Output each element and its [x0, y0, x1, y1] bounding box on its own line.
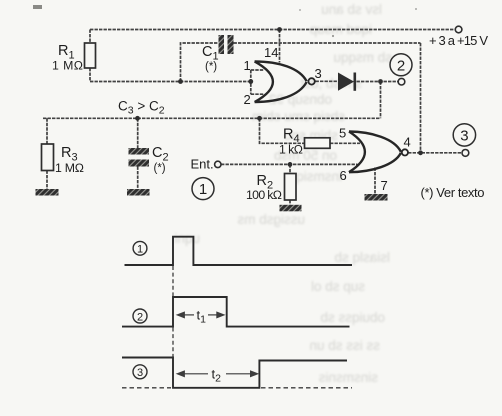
svg-text:3: 3 — [315, 66, 322, 81]
node 1 circled label — [192, 178, 214, 200]
svg-text:2: 2 — [397, 57, 405, 74]
junction: gate U1a input tie dot — [248, 79, 253, 84]
wire: R1 top lead — [89, 30, 91, 44]
ground (C2) — [127, 189, 150, 196]
node 2 circled label (timing) — [133, 309, 147, 323]
junction: R4 branch dot — [257, 116, 262, 121]
svg-text:ss iss sb un: ss iss sb un — [309, 338, 380, 353]
dashed low reference line — [122, 387, 352, 389]
wire: R1 bottom lead to input bus — [89, 68, 91, 82]
svg-text:1: 1 — [199, 181, 207, 198]
ground (R3) — [36, 189, 59, 196]
wire: gate U1a input tie bar — [250, 70, 252, 94]
junction: C2 bus dot — [135, 116, 140, 121]
terminal 2 open circle — [398, 78, 405, 85]
wire: diode cathode to terminal 2 — [357, 81, 399, 83]
wire: R3 top lead — [46, 118, 48, 144]
svg-text:3: 3 — [460, 127, 468, 144]
resistor R3 — [42, 144, 85, 175]
svg-text:lsiaslq sb: lsiaslq sb — [334, 250, 390, 265]
svg-text:1: 1 — [244, 58, 251, 73]
svg-text:+ 3 a +15 V: + 3 a +15 V — [429, 33, 488, 48]
wire: C2 bottom lead to ground — [137, 167, 139, 190]
wire: vertical from C1 lead down to gate U1b output node — [420, 43, 422, 153]
capacitor C1 — [202, 35, 234, 73]
capacitor C2 — [129, 145, 169, 175]
svg-text:14: 14 — [264, 45, 278, 60]
svg-text:sbsiq smu sbim: sbsiq smu sbim — [252, 109, 345, 124]
t2 dimension arrows — [177, 371, 257, 376]
svg-text:3: 3 — [137, 367, 143, 379]
wire: R4 to gate U1b pin 5 — [330, 142, 360, 144]
wire: bus from R1 to gate U1a inputs — [90, 81, 251, 83]
svg-text:obuiqss sb: obuiqss sb — [320, 310, 385, 325]
wire: Ent. input to gate U1b pin 6 — [221, 163, 358, 165]
diode D1 — [338, 73, 355, 91]
ground (pin 7) — [365, 194, 388, 201]
svg-text:(*): (*) — [205, 61, 217, 73]
svg-text:sup sb ol: sup sb ol — [311, 279, 365, 294]
svg-text:lsv sb anu: lsv sb anu — [321, 2, 382, 17]
svg-text:sb msqqu: sb msqqu — [333, 50, 392, 65]
svg-text:uqni: uqni — [174, 231, 200, 246]
svg-text:4: 4 — [404, 135, 411, 150]
junction: gate U1b output node dot — [418, 150, 423, 155]
terminal +V open circle — [455, 26, 462, 33]
svg-text:(*): (*) — [154, 163, 166, 175]
wire: drop from diode node to lower bus — [380, 82, 382, 119]
svg-text:2: 2 — [244, 92, 251, 107]
terminal 3 open circle — [462, 150, 469, 157]
t1 dimension arrows — [177, 312, 224, 317]
svg-text:5: 5 — [339, 126, 346, 141]
wire: pin 2 stub — [251, 93, 264, 95]
junction: R2 input dot — [288, 162, 293, 167]
wire: R2 bottom lead to ground — [289, 200, 291, 205]
waveform 2 trace — [122, 297, 350, 327]
svg-text:1 kΩ: 1 kΩ — [279, 143, 303, 157]
op-amp gate U1b (NOR) — [349, 132, 408, 173]
junction: C1/bus dot — [178, 79, 183, 84]
waveform 1 trace — [125, 237, 353, 265]
wire: C1 right lead across to node 3 column — [234, 42, 421, 44]
decorative specks (not labelled) — [332, 35, 334, 37]
svg-text:6: 6 — [340, 168, 347, 183]
svg-text:Ent.: Ent. — [191, 157, 214, 172]
junction: diode output node dot — [378, 79, 383, 84]
wire: branch down to R4 — [260, 118, 305, 143]
terminal Ent. open circle — [215, 161, 221, 167]
decorative top-left scan mark — [33, 5, 42, 9]
svg-text:1 MΩ: 1 MΩ — [55, 161, 84, 175]
op-amp gate U1a (NOR) — [255, 61, 315, 102]
resistor R2 — [246, 173, 296, 202]
svg-text:100 kΩ: 100 kΩ — [246, 188, 282, 202]
svg-text:ussigsb ms: ussigsb ms — [237, 212, 305, 227]
svg-text:1: 1 — [137, 244, 143, 256]
svg-text:1 MΩ: 1 MΩ — [52, 59, 83, 73]
wire: C2 top lead — [137, 118, 139, 148]
wire: R2 top lead — [289, 164, 291, 173]
svg-text:sinsmsnis: sinsmsnis — [318, 370, 378, 385]
wire: gate U1b pin 7 to ground — [374, 168, 376, 195]
decorative bleed-through (not labelled) — [174, 2, 392, 385]
node 2 circled label — [390, 54, 412, 76]
svg-text:7: 7 — [381, 178, 388, 193]
wire: C1 left lead — [181, 43, 219, 82]
svg-text:2: 2 — [137, 311, 143, 323]
node 1 circled label (timing) — [133, 241, 147, 255]
svg-text:(*) Ver texto: (*) Ver texto — [421, 185, 485, 200]
waveform 3 trace — [122, 358, 347, 388]
junction: pin14 rail dot — [277, 27, 282, 32]
resistor R1 — [52, 43, 96, 73]
node 3 circled label — [453, 124, 475, 146]
wire: gate U1a output to diode — [316, 80, 339, 82]
node 3 circled label (timing) — [133, 365, 147, 379]
wire: +V top rail — [90, 29, 455, 31]
wire: pin 14 drop from rail to gate U1a — [279, 30, 281, 63]
wire: pin 1 stub — [251, 69, 264, 71]
dashed time reference vertical — [172, 266, 174, 357]
wire: R3 bottom lead to ground — [46, 171, 48, 190]
ground (R2) — [280, 205, 302, 212]
wire: lower bus C3>C2 node — [43, 117, 381, 119]
wire: gate U1b output to terminal 3 — [408, 152, 462, 154]
resistor R4 — [279, 127, 330, 157]
